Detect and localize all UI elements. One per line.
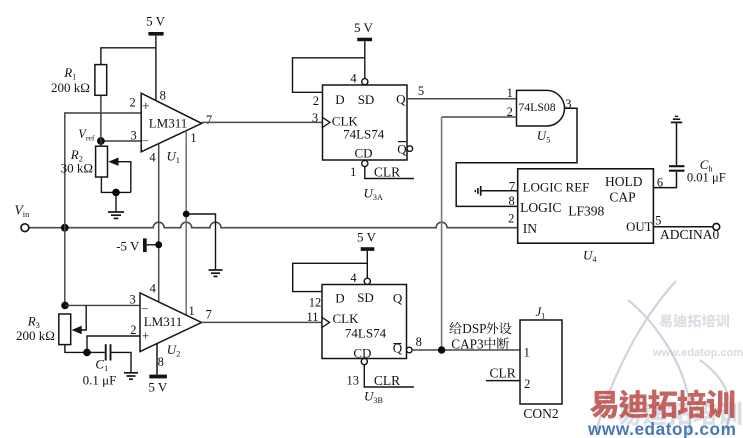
svg-text:74LS74: 74LS74 <box>345 326 387 341</box>
node ADCINA0 output terminal <box>660 223 720 241</box>
svg-text:74LS08: 74LS08 <box>518 100 555 114</box>
svg-text:12: 12 <box>309 296 322 310</box>
wire U3A Q output to U5 pin 1 <box>407 98 517 100</box>
wire U2 pin 2 input <box>87 336 140 352</box>
svg-text:2: 2 <box>129 96 135 110</box>
wire Vin input bus to U4 IN (with crossover hops) <box>29 222 518 227</box>
pin 4 bubble U3A (SD active low) <box>362 79 368 85</box>
capacitor C1 <box>106 344 111 360</box>
resistor R2 (potentiometer) <box>96 146 108 177</box>
label R1 value <box>51 65 90 95</box>
svg-text:2: 2 <box>508 212 514 226</box>
svg-text:LOGIC REF: LOGIC REF <box>523 179 590 194</box>
op-amp comparator U2 (LM311) <box>140 293 202 352</box>
svg-text:SD: SD <box>358 92 375 107</box>
svg-text:1: 1 <box>507 86 513 100</box>
svg-text:ADCINA0: ADCINA0 <box>660 227 719 242</box>
wire U2 output pin 7 to U3B CLK <box>202 321 323 323</box>
svg-text:2: 2 <box>524 377 530 391</box>
label R2 value <box>61 147 93 176</box>
svg-text:5: 5 <box>418 84 424 98</box>
svg-text:13: 13 <box>346 373 359 387</box>
connector J1 (CON2) <box>520 320 562 404</box>
resistor R3 (potentiometer) <box>59 314 71 345</box>
power +5V rail (U3B SD) <box>357 230 377 279</box>
node Vin input terminal <box>15 203 31 232</box>
capacitor Ch <box>669 166 684 171</box>
op-amp comparator U1 (LM311) <box>141 93 202 152</box>
svg-text:4: 4 <box>350 71 357 85</box>
svg-text:SD: SD <box>357 290 374 305</box>
wire U3A D tied high <box>293 58 365 93</box>
svg-text:LF398: LF398 <box>568 204 604 219</box>
junction Vref node <box>78 127 105 145</box>
pin 8 bubble U3B (Q-bar) <box>407 347 413 353</box>
svg-text:CAP: CAP <box>609 190 635 205</box>
junction CAP3 net / J1 <box>438 346 445 353</box>
svg-text:LM311: LM311 <box>149 115 188 130</box>
wire U1 pin 2 input <box>65 112 142 114</box>
wire U1 output pin 7 to U3A CLK <box>202 121 323 123</box>
svg-text:4: 4 <box>149 150 156 164</box>
svg-text:1: 1 <box>350 165 356 179</box>
svg-text:IN: IN <box>523 221 537 236</box>
svg-text:DSP: DSP <box>462 321 486 336</box>
svg-text:CD: CD <box>353 345 371 360</box>
svg-text:11: 11 <box>306 310 318 324</box>
watermark ghost text behind brand <box>617 402 741 426</box>
junction -5V node <box>155 241 162 248</box>
svg-text:2: 2 <box>130 323 136 337</box>
svg-text:Q: Q <box>397 141 407 156</box>
svg-text:www.edatop.com: www.edatop.com <box>587 419 736 438</box>
label C1 value <box>83 357 117 388</box>
wire U3B CLR net <box>364 365 414 387</box>
svg-text:+: + <box>142 328 150 343</box>
watermark swoosh curves <box>596 281 730 436</box>
svg-text:1: 1 <box>524 346 530 360</box>
svg-text:–: – <box>141 300 149 314</box>
label R3 value <box>16 313 55 343</box>
wire C1 to ground <box>111 352 132 372</box>
flip-flop U3B (74LS74) <box>322 285 407 361</box>
wire R1 bottom to Vref node <box>100 95 102 146</box>
pin 1 bubble U3A (CD active low) <box>362 160 368 166</box>
sample-hold U4 (LF398) <box>518 169 654 243</box>
junction Vin bus / comparator inputs <box>61 224 69 232</box>
wire U4 pin 6 to hold capacitor <box>653 172 676 188</box>
wire U5 output to LF398 LOGIC <box>456 108 577 206</box>
wire to ground (R2) <box>115 192 117 211</box>
label CAP3 interrupt note (Chinese) <box>449 321 511 351</box>
svg-text:5 V: 5 V <box>148 379 168 394</box>
svg-text:5: 5 <box>655 214 661 228</box>
svg-text:4: 4 <box>150 282 157 296</box>
svg-text:4: 4 <box>350 271 357 285</box>
wire U2 pin 8 to +5V <box>156 344 158 375</box>
svg-text:Q: Q <box>393 291 403 306</box>
svg-text:CLR: CLR <box>374 373 400 388</box>
AND gate U5 (74LS08) <box>517 90 565 126</box>
svg-text:7: 7 <box>206 307 212 321</box>
svg-text:D: D <box>335 291 344 306</box>
svg-text:5 V: 5 V <box>146 14 166 29</box>
power +5V rail (U3A SD) <box>354 20 374 79</box>
svg-text:Q: Q <box>396 92 406 107</box>
resistor R1 <box>95 65 107 96</box>
wiper arrow R3 <box>72 305 87 334</box>
wiper arrow R2 <box>108 158 131 193</box>
svg-text:CLR: CLR <box>489 366 515 381</box>
wire Ch to ground <box>676 123 678 166</box>
svg-text:CLK: CLK <box>333 311 360 326</box>
wire U2 pin 3 input <box>65 304 140 306</box>
svg-text:5 V: 5 V <box>357 230 377 245</box>
wire U3A CLR net <box>365 167 414 179</box>
wire U1 pin 4 to -5V and U2 pin 4 <box>158 144 160 302</box>
junction pin1 ground tap <box>183 211 190 218</box>
svg-text:200 kΩ: 200 kΩ <box>16 328 55 343</box>
ground (below R2) <box>108 212 124 218</box>
svg-text:2: 2 <box>313 94 319 108</box>
svg-text:LM311: LM311 <box>144 314 183 329</box>
ground (above Ch, inverted) <box>671 116 682 122</box>
pin 6 bubble U3A (Q-bar unused) <box>407 146 413 152</box>
wire U5 pin 2 input <box>442 116 517 118</box>
svg-text:1: 1 <box>188 304 194 318</box>
svg-text:8: 8 <box>416 335 422 349</box>
wire R3 top junction <box>61 302 69 310</box>
wire R2 bottom loop <box>101 177 130 192</box>
wire U4 pin 7 to logic ground <box>481 190 518 192</box>
svg-text:1: 1 <box>190 131 196 145</box>
svg-text:OUT: OUT <box>626 220 652 234</box>
svg-text:0.1 μF: 0.1 μF <box>83 372 117 387</box>
svg-text:8: 8 <box>160 88 166 102</box>
svg-text:D: D <box>335 92 344 107</box>
wire U3B D tied high <box>293 263 368 291</box>
svg-text:www.edatop.com: www.edatop.com <box>652 347 743 359</box>
pin 13 bubble U3B (CD active low) <box>361 359 367 365</box>
pin 4 bubble U3B (SD active low) <box>364 278 370 284</box>
label Ch value <box>687 157 726 184</box>
svg-text:30 kΩ: 30 kΩ <box>61 161 93 176</box>
wire R3 bottom to C1 <box>65 345 105 353</box>
svg-text:7: 7 <box>206 113 212 127</box>
watermark ghost tile row 1 (CJK) <box>659 314 729 327</box>
power +5V rail (top, U1 pin 8) <box>146 14 166 101</box>
svg-text:3: 3 <box>565 97 571 111</box>
wire pin1 node to ground <box>186 214 215 270</box>
svg-text:CLR: CLR <box>374 164 400 179</box>
svg-text:CD: CD <box>354 146 372 161</box>
svg-text:–: – <box>141 133 149 147</box>
watermark brand text (red) <box>590 390 735 419</box>
svg-text:LOGIC: LOGIC <box>520 200 561 215</box>
wire U1 pin 3 input (Vref) <box>101 140 142 142</box>
svg-text:8: 8 <box>158 355 164 369</box>
svg-text:CAP3: CAP3 <box>451 336 484 351</box>
wire U3B Q-bar to J1 pin 1 <box>412 349 520 351</box>
power -5V supply <box>116 238 159 253</box>
svg-text:74LS74: 74LS74 <box>343 127 385 142</box>
wire R1 top to +5V rail <box>101 48 156 65</box>
svg-text:200 kΩ: 200 kΩ <box>51 80 90 95</box>
flip-flop U3A (74LS74) <box>323 85 408 161</box>
svg-text:5 V: 5 V <box>354 20 374 35</box>
junction R3/C1/U2 pin 2 <box>83 349 91 357</box>
ground (C1) <box>124 373 138 379</box>
junction R2 bottom / ground <box>112 189 120 197</box>
svg-text:0.01 μF: 0.01 μF <box>687 170 726 184</box>
svg-text:8: 8 <box>508 194 514 208</box>
svg-text:CON2: CON2 <box>523 406 558 421</box>
wire U1 pin 1 / U2 pin 1 vertical <box>185 131 187 315</box>
wire vertical branch x=65 (U1 pin2 to R3 top) <box>64 112 66 305</box>
svg-text:-5 V: -5 V <box>116 238 140 253</box>
svg-text:Q: Q <box>393 341 403 356</box>
svg-text:3: 3 <box>129 292 135 306</box>
wire J1 pin 2 CLR net <box>486 380 520 382</box>
svg-text:3: 3 <box>312 111 318 125</box>
svg-text:3: 3 <box>130 128 136 142</box>
wire U4 OUT to ADCINA0 <box>653 226 713 228</box>
ground (logic reference, sideways) <box>475 186 480 196</box>
wire U5 pin2 / U3B Q-bar vertical net <box>441 117 443 350</box>
svg-text:+: + <box>142 99 150 114</box>
ground (comparator outputs) <box>209 270 223 276</box>
svg-text:HOLD: HOLD <box>605 174 643 189</box>
power +5V rail (bottom, U2 pin 8) <box>148 375 168 395</box>
